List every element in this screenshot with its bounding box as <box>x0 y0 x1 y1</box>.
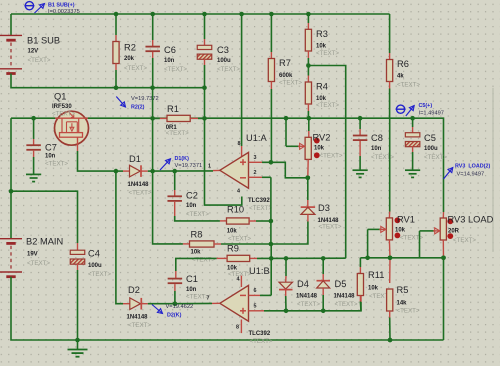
junction vout rail C8 <box>358 116 363 121</box>
label RV2 text <box>320 152 343 159</box>
capacitor C3 <box>197 45 212 59</box>
svg-text:C5(+): C5(+) <box>419 103 433 109</box>
wire RV3 top lead <box>442 212 444 218</box>
label U1:A part <box>248 198 270 204</box>
label C6 value <box>164 58 175 64</box>
svg-text:I=0.0023375: I=0.0023375 <box>48 9 80 15</box>
svg-text:10n: 10n <box>186 203 197 209</box>
svg-text:R4: R4 <box>316 82 328 92</box>
label R7 ref <box>279 58 291 68</box>
wire C3 bottom lead <box>204 59 206 88</box>
junction top rail C6 <box>150 12 155 17</box>
label R4 value <box>316 96 327 102</box>
label B1 text <box>28 57 51 64</box>
pin dot RV2 top <box>314 138 320 144</box>
wire U1:B pin6 stub <box>249 294 272 296</box>
label C8 value <box>371 146 382 152</box>
svg-text:<TEXT>: <TEXT> <box>88 271 111 278</box>
potentiometer RV2 <box>305 137 311 159</box>
wire C3 top lead <box>204 14 206 45</box>
svg-text:<TEXT>: <TEXT> <box>166 130 189 137</box>
junction D2 C1 <box>173 301 178 306</box>
wiper RV1 <box>368 226 386 257</box>
label R3 text <box>316 50 339 57</box>
label C7 ref <box>45 143 57 153</box>
label D5 text <box>335 301 358 308</box>
wire C2 bottom lead <box>175 202 220 221</box>
svg-text:Q1: Q1 <box>54 92 66 102</box>
svg-text:600k: 600k <box>279 73 293 79</box>
svg-text:<TEXT>: <TEXT> <box>297 301 320 308</box>
label R2 ref <box>124 43 136 53</box>
wire top rail from B1+ to R6 <box>11 13 390 15</box>
wire D1 cathode to U1:A out <box>153 169 220 172</box>
label C5 ref <box>424 133 436 143</box>
junction pin3 R7 <box>269 160 274 165</box>
capacitor C2 <box>167 196 182 201</box>
label B2 text <box>27 260 50 267</box>
label probe B1 name <box>48 2 75 8</box>
capacitor C4 <box>70 243 85 264</box>
label RV1 text <box>400 234 423 241</box>
wire C5 bottom lead <box>412 146 414 170</box>
wire R7 top lead <box>270 14 272 59</box>
svg-text:R2(2): R2(2) <box>131 104 145 110</box>
svg-text:100u: 100u <box>424 146 438 152</box>
svg-text:V=19.7372: V=19.7372 <box>131 96 159 102</box>
label probe D2 name <box>167 312 182 318</box>
wire vout rail <box>11 118 444 212</box>
svg-text:<TEXT>: <TEXT> <box>45 160 68 167</box>
pin dot RV2 bottom <box>314 152 320 158</box>
wire RV2 bottom lead <box>307 159 309 177</box>
junction shunt left D1 row <box>150 169 155 174</box>
wire R3 top lead <box>307 14 309 29</box>
label R7 text <box>279 79 302 86</box>
wire B1 negative lead <box>11 74 205 88</box>
label RV3 ref <box>448 215 494 225</box>
junction vout rail R1 right <box>202 116 207 121</box>
junction ground rail R5 overlay <box>388 338 393 343</box>
junction vout rail RV2 wiper <box>284 116 289 121</box>
diode D3 <box>301 207 315 214</box>
svg-text:R5: R5 <box>397 285 409 295</box>
battery B2 MAIN <box>0 239 22 277</box>
ground C8 <box>353 170 368 177</box>
wire RV3 bottom lead <box>442 240 444 258</box>
wire RV1 top lead <box>388 118 390 218</box>
label R11 text <box>369 293 392 300</box>
svg-text:RV2: RV2 <box>313 133 331 143</box>
wire R1 right lead <box>190 117 204 119</box>
label R2 value <box>124 56 135 62</box>
svg-text:C6: C6 <box>164 45 176 55</box>
wire U1:B out stub <box>212 302 220 304</box>
sheet border right edge <box>492 88 494 252</box>
label probe D1 value <box>175 163 203 169</box>
label C7 value <box>45 154 56 160</box>
resistor R4 <box>305 82 311 104</box>
svg-text:4k: 4k <box>397 74 404 80</box>
svg-text:R8: R8 <box>191 230 203 240</box>
wire R8 right lead <box>214 243 271 245</box>
label C8 text <box>371 154 394 161</box>
wire R4 bottom lead <box>307 104 309 118</box>
wire R1 left lead <box>153 117 167 119</box>
svg-text:<TEXT>: <TEXT> <box>164 66 187 73</box>
junction ground rail C4 <box>75 338 80 343</box>
junction vout rail R4 <box>307 116 312 121</box>
wire pin6 vertical <box>270 244 272 295</box>
label D3 text <box>319 223 342 230</box>
wire D2 cathode lead <box>141 303 175 305</box>
label R1 value <box>166 125 178 131</box>
op-amp U1:A <box>220 152 249 188</box>
svg-text:10k: 10k <box>191 250 202 256</box>
label U1:A pin1 <box>208 163 211 169</box>
label C5 value <box>424 146 438 152</box>
junction left rail B2+ <box>9 189 14 194</box>
svg-text:<TEXT>: <TEXT> <box>279 79 302 86</box>
wire D1 anode lead <box>116 170 130 172</box>
label probe B1 value <box>48 9 80 15</box>
label C2 text <box>186 211 209 218</box>
label C4 ref <box>88 249 100 259</box>
svg-text:D2(K): D2(K) <box>167 312 182 318</box>
label R8 text <box>192 256 215 263</box>
wire RV2 top lead <box>308 118 310 137</box>
label C3 value <box>217 58 231 64</box>
label D1 ref <box>129 154 141 164</box>
wire U1:B pin5 stub <box>249 310 265 312</box>
resistor R5 <box>387 289 393 311</box>
label D2 ref <box>128 285 140 295</box>
transistor Q1 <box>55 111 89 145</box>
label C3 text <box>217 66 240 73</box>
wire R2 bottom lead <box>115 64 117 88</box>
wire D2 node to U1:B out <box>175 302 212 304</box>
svg-text:<TEXT>: <TEXT> <box>335 301 358 308</box>
svg-text:<TEXT>: <TEXT> <box>128 322 151 329</box>
svg-text:4: 4 <box>237 276 240 282</box>
svg-text:<TEXT>: <TEXT> <box>397 307 420 314</box>
wiper RV2 <box>286 118 305 149</box>
junction D1 node x116 <box>114 169 119 174</box>
label R9 text <box>228 271 251 278</box>
label C2 value <box>186 203 197 209</box>
wire R10 right lead <box>249 220 271 222</box>
junction top rail U1:A pin8 <box>239 12 244 17</box>
potentiometer RV1 <box>386 218 392 240</box>
wiper RV3 <box>420 228 440 258</box>
junction RV3 bottom net <box>441 255 446 260</box>
svg-text:D4: D4 <box>297 279 309 289</box>
pin dot RV1 top <box>395 217 401 223</box>
wire Q1 source lead <box>78 137 116 171</box>
label U1:B pin5 <box>254 303 257 309</box>
resistor R7 <box>268 59 274 82</box>
label RV1 value <box>395 228 406 234</box>
current probe B1 SUB(+) <box>24 2 44 13</box>
wire C5 top lead <box>412 118 414 132</box>
svg-text:RV1: RV1 <box>397 215 415 225</box>
label Q1 value <box>52 104 72 110</box>
label C2 ref <box>186 191 198 201</box>
label probe R2 name <box>131 104 145 110</box>
label C1 text <box>186 293 209 300</box>
svg-text:D2: D2 <box>128 285 140 295</box>
label U1:A pin8 <box>238 141 241 147</box>
capacitor C1 <box>168 279 183 284</box>
svg-text:I=1.49497: I=1.49497 <box>419 111 444 117</box>
label RV3 value <box>448 229 460 235</box>
label D1 text <box>129 189 152 196</box>
label B2 ref <box>26 237 63 247</box>
svg-text:1N4148: 1N4148 <box>127 315 149 321</box>
svg-text:D1: D1 <box>129 154 141 164</box>
label D1 value <box>128 182 150 188</box>
junction top rail R2 <box>114 12 119 17</box>
junction R3 R4 <box>306 63 311 68</box>
label R4 text <box>316 102 339 109</box>
resistor R11 <box>357 274 363 296</box>
junction pin2 R8 D3 <box>269 242 274 247</box>
svg-text:14k: 14k <box>397 301 408 307</box>
svg-text:<TEXT>: <TEXT> <box>124 65 147 72</box>
label R10 ref <box>227 205 244 215</box>
junction top rail R3 <box>306 12 311 17</box>
svg-text:8: 8 <box>236 324 239 330</box>
wire R8 left lead <box>183 243 190 245</box>
junction RV3 bottom overlay <box>441 255 446 260</box>
wire D5 bottom lead <box>322 288 324 311</box>
svg-text:R10: R10 <box>227 205 244 215</box>
resistor R9 <box>227 255 250 261</box>
junction RV1 bottom overlay <box>388 255 393 260</box>
label R5 ref <box>397 285 409 295</box>
current probe C5(+) <box>396 105 415 116</box>
label R3 ref <box>316 29 328 39</box>
svg-text:10k: 10k <box>368 286 379 292</box>
svg-text:C3: C3 <box>217 45 229 55</box>
junction mid rail C6 <box>150 85 155 90</box>
label U1:B pin6 <box>254 288 257 294</box>
resistor R10 <box>227 218 250 224</box>
resistor R2 <box>113 42 119 64</box>
label R8 value <box>191 250 202 256</box>
label R6 text <box>397 81 420 88</box>
label C4 value <box>88 263 102 269</box>
label R10 text <box>228 235 251 242</box>
wire B2 plus rail to C4 <box>11 191 78 243</box>
label D2 value <box>127 315 149 321</box>
junction top rail R7 <box>269 12 274 17</box>
svg-text:100u: 100u <box>88 263 102 269</box>
wire R9 left lead <box>176 258 227 278</box>
label R10 value <box>227 229 238 235</box>
svg-text:10n: 10n <box>45 154 56 160</box>
wire U1:B pin8 stub <box>240 320 242 334</box>
svg-text:R9: R9 <box>227 244 239 254</box>
svg-text:<TEXT>: <TEXT> <box>316 102 339 109</box>
label D2 text <box>128 322 151 329</box>
svg-text:R11: R11 <box>368 270 384 280</box>
label probe RV3 name <box>455 163 490 169</box>
junction top rail C3 <box>202 12 207 17</box>
wire B1 positive lead <box>10 14 12 35</box>
diode D5 <box>317 281 331 288</box>
label C6 text <box>164 66 187 73</box>
wire D3 top lead <box>307 178 309 207</box>
wire pin6 net <box>257 257 346 259</box>
label R3 value <box>316 44 327 50</box>
label probe R2 value <box>131 96 159 102</box>
svg-text:<TEXT>: <TEXT> <box>192 256 215 263</box>
svg-text:1N4148: 1N4148 <box>296 294 318 300</box>
svg-text:<TEXT>: <TEXT> <box>320 152 343 159</box>
label RV2 value <box>314 146 325 152</box>
svg-text:<TEXT>: <TEXT> <box>371 154 394 161</box>
svg-text:B1 SUB: B1 SUB <box>27 35 60 45</box>
svg-text:<TEXT>: <TEXT> <box>250 338 273 345</box>
wire R3 R4 node branch <box>308 66 345 259</box>
label R2 text <box>124 65 147 72</box>
wire R11 bottom lead <box>359 296 362 311</box>
svg-text:<TEXT>: <TEXT> <box>228 235 251 242</box>
svg-text:<TEXT>: <TEXT> <box>28 57 51 64</box>
wire left rail to B2 <box>10 191 12 238</box>
label B1 ref <box>27 35 60 45</box>
voltage probe R2(2) <box>116 97 125 108</box>
svg-text:<TEXT>: <TEXT> <box>186 211 209 218</box>
junction pin3 RV2 overlay <box>306 176 311 181</box>
label probe C5 value <box>419 111 444 117</box>
wire net shunt left vertical <box>153 88 183 244</box>
svg-text:12V: 12V <box>28 49 39 55</box>
label U1:A pin3 <box>254 155 257 161</box>
junction RV1 wiper net <box>365 255 370 260</box>
battery B1 SUB <box>0 35 22 73</box>
label R8 ref <box>191 230 203 240</box>
wire R11 RV net <box>360 257 443 259</box>
label probe D2 value <box>166 304 194 310</box>
svg-text:C7: C7 <box>45 143 57 153</box>
label RV3 text <box>453 237 476 244</box>
svg-text:D1(K): D1(K) <box>175 156 190 162</box>
svg-text:B1 SUB(+): B1 SUB(+) <box>48 2 75 8</box>
label probe RV3 value <box>457 172 485 178</box>
svg-text:10k: 10k <box>316 44 327 50</box>
wire D4 top lead <box>285 258 287 282</box>
wire C7 top lead <box>33 118 35 145</box>
wire R4 top lead <box>307 66 309 83</box>
svg-text:V=19.4622: V=19.4622 <box>166 304 194 310</box>
wire net R1 right vertical <box>205 88 242 205</box>
label C4 text <box>88 271 111 278</box>
svg-text:R3: R3 <box>316 29 328 39</box>
diode D1 <box>130 165 142 177</box>
label Q1 ref <box>54 92 66 102</box>
pin dot RV3 top <box>447 218 453 224</box>
svg-text:<TEXT>: <TEXT> <box>453 237 476 244</box>
svg-text:<TEXT>: <TEXT> <box>129 189 152 196</box>
svg-text:V=19.7371: V=19.7371 <box>175 163 203 169</box>
label R6 value <box>397 74 404 80</box>
label U1:A ref <box>246 133 267 143</box>
svg-text:1N4148: 1N4148 <box>334 294 356 300</box>
wire B2 negative lead <box>11 277 444 340</box>
junction out node C2 <box>172 169 177 174</box>
label C5 text <box>424 154 447 161</box>
label RV2 ref <box>313 133 331 143</box>
label U1:A pin2 <box>254 170 257 176</box>
label R5 text <box>397 307 420 314</box>
label RV1 ref <box>397 215 415 225</box>
junction vout rail R1 left <box>150 116 155 121</box>
label D5 value <box>334 294 356 300</box>
wire R10 left lead <box>220 220 227 222</box>
wire R6 top lead <box>389 14 391 60</box>
wire C8 bottom lead <box>359 141 361 170</box>
svg-text:R2: R2 <box>124 43 136 53</box>
wire R3 bottom lead <box>307 51 309 66</box>
wire R5 bottom lead <box>389 311 391 340</box>
svg-text:TLC392: TLC392 <box>248 198 270 204</box>
voltage probe D1(K) <box>160 159 171 170</box>
wire pin2 vertical <box>270 177 272 244</box>
svg-text:<TEXT>: <TEXT> <box>319 223 342 230</box>
svg-text:<TEXT>: <TEXT> <box>27 260 50 267</box>
svg-text:10n: 10n <box>371 146 382 152</box>
label B2 value <box>27 252 38 258</box>
voltage probe D2(K) <box>152 305 163 314</box>
label C1 ref <box>186 274 198 284</box>
label R11 ref <box>368 270 384 280</box>
wire RV1 bottom lead <box>388 240 391 283</box>
capacitor C7 <box>26 145 40 150</box>
svg-text:10n: 10n <box>164 58 175 64</box>
junction pin6 vertical <box>269 256 274 261</box>
svg-text:C2: C2 <box>186 191 198 201</box>
label D5 ref <box>335 279 347 289</box>
wire pin2 from stub <box>262 176 271 178</box>
label R6 ref <box>397 59 409 69</box>
junction pin3 RV2 bottom <box>306 176 311 181</box>
svg-text:6: 6 <box>254 288 257 294</box>
wire R2 top lead <box>115 14 117 42</box>
svg-text:20R: 20R <box>448 229 460 235</box>
label U1:B pin7 <box>207 295 210 301</box>
label D4 ref <box>297 279 309 289</box>
svg-text:<TEXT>: <TEXT> <box>228 271 251 278</box>
label C7 text <box>45 160 68 167</box>
diode D2 <box>130 298 142 310</box>
capacitor C6 <box>145 47 160 52</box>
svg-text:19V: 19V <box>27 252 38 258</box>
label Q1 text <box>52 110 75 117</box>
label R11 value <box>368 286 379 292</box>
svg-text:10k: 10k <box>227 229 238 235</box>
wire D5 top lead <box>322 258 324 280</box>
label C3 ref <box>217 45 229 55</box>
svg-text:<TEXT>: <TEXT> <box>52 110 75 117</box>
wire C4 bottom lead <box>77 264 79 340</box>
wire R11 top lead <box>359 258 361 274</box>
junction pin5 D5 <box>321 309 326 314</box>
pin dot RV1 bottom <box>395 233 401 239</box>
svg-text:<TEXT>: <TEXT> <box>217 66 240 73</box>
wire R7 bottom lead <box>270 82 272 162</box>
